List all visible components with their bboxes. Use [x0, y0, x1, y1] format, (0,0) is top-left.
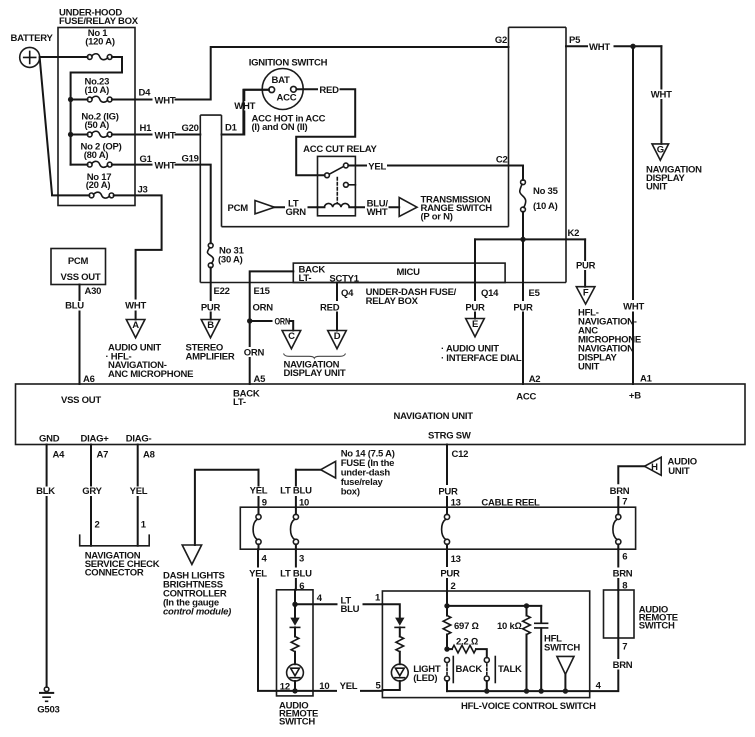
svg-text:G503: G503 [37, 705, 59, 716]
svg-text:RELAY BOX: RELAY BOX [366, 296, 419, 307]
node audio remote bottom [292, 688, 297, 693]
under-dash box right edge / P5 line [565, 27, 567, 282]
relay NO contact [344, 163, 356, 168]
battery [11, 33, 54, 67]
pin DIAG- [126, 434, 152, 445]
svg-text:LT BLU: LT BLU [280, 569, 312, 580]
svg-text:B: B [207, 320, 214, 331]
svg-text:H1: H1 [140, 123, 153, 134]
svg-text:WHT: WHT [651, 90, 672, 101]
svg-text:YEL: YEL [250, 486, 268, 497]
cable reel box [240, 498, 635, 550]
label audio unit / interface dial [441, 344, 522, 365]
under-dash box left edge (G20 line) [199, 115, 201, 282]
PCM connector [228, 201, 275, 215]
svg-text:(10 A): (10 A) [533, 201, 558, 212]
relay actuator dashed link [336, 178, 338, 204]
svg-text:3: 3 [299, 554, 304, 565]
relay common contact [325, 173, 330, 178]
wire Q14 PUR to connector E [465, 239, 499, 318]
svg-text:BRN: BRN [610, 486, 630, 497]
svg-text:UNIT: UNIT [646, 182, 668, 193]
wire H1 WHT G20 D1 [112, 90, 269, 142]
wire pin 12 / pin 10 YEL to hfl pin 5 [277, 681, 383, 693]
svg-text:GRY: GRY [82, 486, 102, 497]
svg-text:E: E [472, 319, 478, 330]
fuse No.23 (10 A) [71, 77, 113, 103]
svg-text:RED: RED [319, 85, 339, 96]
label audio unit / hfl-navigation-anc microphone [106, 343, 194, 380]
node rail talk [484, 688, 489, 693]
svg-text:UNIT: UNIT [578, 362, 600, 373]
wire BLU/WHT relay to transmission range switch [355, 199, 399, 219]
pin STRG SW [428, 431, 471, 442]
audio unit connector H [645, 457, 697, 477]
audio remote switch box [277, 590, 319, 728]
svg-text:WHT: WHT [234, 101, 255, 112]
node WHT split [630, 44, 635, 49]
svg-text:MICU: MICU [397, 267, 421, 278]
svg-text:7: 7 [622, 642, 627, 653]
svg-text:DIAG+: DIAG+ [81, 434, 110, 445]
svg-text:ORN: ORN [253, 303, 274, 314]
svg-text:No 35: No 35 [533, 186, 559, 197]
svg-text:2: 2 [95, 520, 100, 531]
svg-text:ACC: ACC [516, 392, 536, 403]
svg-text:YEL: YEL [249, 569, 267, 580]
svg-text:VSS OUT: VSS OUT [61, 272, 101, 283]
connector D [328, 331, 347, 349]
svg-text:Q14: Q14 [481, 288, 499, 299]
svg-text:SWITCH: SWITCH [544, 643, 580, 654]
svg-text:box): box) [341, 487, 360, 498]
svg-text:BRN: BRN [613, 569, 633, 580]
cable reel coupler BRN [613, 507, 621, 549]
cable reel coupler YEL [253, 507, 261, 549]
pin VSS OUT [61, 395, 101, 406]
navigation unit box [16, 384, 746, 445]
wire A8 YEL [130, 445, 155, 546]
svg-text:PCM: PCM [68, 256, 89, 267]
wire YEL to dash lights controller [195, 470, 259, 545]
relay coil [318, 203, 356, 207]
svg-text:LT-: LT- [299, 273, 312, 284]
svg-text:12: 12 [280, 682, 290, 693]
svg-text:ACC: ACC [276, 93, 296, 104]
wire hfl top rail [447, 605, 541, 607]
svg-text:CONNECTOR: CONNECTOR [85, 568, 144, 579]
PCM VSS OUT box [51, 249, 106, 285]
wire A4 BLK to ground [36, 445, 65, 688]
svg-text:YEL: YEL [368, 161, 386, 172]
wire LT BLU pin 4 to hfl pin 1 [295, 592, 382, 615]
svg-text:ORN: ORN [275, 316, 291, 327]
svg-text:AMPLIFIER: AMPLIFIER [186, 351, 235, 362]
wire BRN through to hfl pin 4 [590, 590, 633, 692]
svg-text:SCTY1: SCTY1 [329, 274, 359, 285]
wire pin 6 into switch [294, 590, 296, 605]
svg-text:DIAG-: DIAG- [126, 434, 152, 445]
wire J3 to WHT audio unit branch [114, 185, 162, 320]
svg-text:A4: A4 [53, 450, 66, 461]
under-hood fuse/relay box [58, 8, 139, 206]
fuse No 1 (120 A) [85, 28, 115, 60]
svg-text:C: C [288, 331, 295, 342]
fuse No 31 (30 A) [207, 243, 244, 268]
svg-text:P5: P5 [569, 35, 581, 46]
svg-text:697 Ω: 697 Ω [454, 621, 479, 632]
svg-text:(50 A): (50 A) [85, 120, 110, 131]
capacitor C [535, 606, 548, 691]
label under-dash fuse/relay box [366, 287, 457, 307]
fuse No 2 (OP) (80 A) [71, 142, 122, 168]
node No35/E5/K2 [520, 237, 525, 242]
svg-text:PCM: PCM [228, 203, 249, 214]
transmission range switch connector [399, 195, 492, 223]
svg-text:WHT: WHT [155, 95, 176, 106]
svg-text:2.2 Ω: 2.2 Ω [456, 636, 478, 647]
svg-text:C2: C2 [496, 155, 508, 166]
svg-text:(P or N): (P or N) [421, 212, 453, 223]
wire LT GRN PCM to relay coil [275, 198, 318, 218]
svg-text:D: D [334, 331, 341, 342]
wire ORN to A5 [244, 348, 266, 386]
pin +B [629, 391, 641, 402]
ground G503 [37, 687, 59, 716]
svg-text:WHT: WHT [589, 42, 610, 53]
switch BACK [445, 657, 483, 692]
svg-text:D1: D1 [225, 123, 238, 134]
svg-text:BRN: BRN [613, 660, 633, 671]
wire battery to fuse No 1 [40, 56, 88, 58]
wire BRN cable reel 6 to audio remote 8 [613, 549, 633, 591]
wire BRN audio unit to cable reel 7 [610, 466, 645, 507]
svg-text:FUSE/RELAY BOX: FUSE/RELAY BOX [59, 16, 139, 27]
node ORN split [247, 318, 252, 323]
switch TALK [484, 657, 522, 692]
pin DIAG+ [81, 434, 110, 445]
label G2 [495, 35, 507, 46]
label acc hot [252, 114, 326, 134]
svg-text:WHT: WHT [125, 301, 146, 312]
connector E [466, 319, 485, 337]
node 10k tap [524, 603, 529, 608]
resistor hfl LED [396, 637, 404, 665]
ignition box left edge (D1 line) [221, 115, 223, 227]
wire E15 ORN back lt- [250, 271, 294, 346]
svg-text:CABLE REEL: CABLE REEL [481, 498, 540, 509]
svg-text:J3: J3 [138, 185, 148, 196]
svg-text:PUR: PUR [438, 487, 458, 498]
svg-text:LT BLU: LT BLU [280, 486, 312, 497]
svg-text:A1: A1 [640, 374, 653, 385]
wire E22 PUR to stereo amplifier [201, 268, 230, 320]
bracket navigation display unit [284, 354, 346, 359]
wire LT BLU cable reel 3 to audio remote 6 [280, 549, 312, 592]
wire G1 WHT G19 down to No 31 [112, 154, 211, 244]
svg-text:UNIT: UNIT [668, 466, 690, 477]
svg-text:HFL-VOICE CONTROL SWITCH: HFL-VOICE CONTROL SWITCH [461, 701, 596, 712]
relay switch arm [329, 166, 343, 174]
svg-text:BLU: BLU [65, 301, 84, 312]
ignition switch [249, 58, 328, 110]
svg-text:BLU: BLU [341, 604, 360, 615]
wire YEL relay to C2 and No 35 [355, 155, 523, 181]
resistor 2.2 ohm [447, 636, 487, 657]
svg-text:(30 A): (30 A) [218, 255, 243, 266]
svg-text:WHT: WHT [623, 302, 644, 313]
svg-text:G2: G2 [495, 35, 507, 46]
svg-text:F: F [583, 287, 589, 298]
connector F [576, 287, 595, 304]
svg-text:control module): control module) [163, 607, 231, 618]
navigation service check connector [80, 534, 160, 578]
ACC cut relay [303, 144, 377, 216]
node rail hfl switch [563, 688, 568, 693]
LED audio remote [287, 664, 304, 691]
wire hfl pin 1 to LED branch [382, 604, 399, 617]
svg-text:D4: D4 [139, 88, 152, 99]
svg-text:WHT: WHT [367, 207, 388, 218]
svg-text:STRG SW: STRG SW [428, 431, 471, 442]
svg-text:BACK: BACK [456, 664, 483, 675]
svg-text:WHT: WHT [155, 160, 176, 171]
svg-text:E15: E15 [254, 286, 271, 297]
audio remote switch pass-through box [604, 590, 678, 638]
node hfl top [444, 603, 449, 608]
connector A [126, 320, 145, 338]
svg-text:Q4: Q4 [341, 288, 354, 299]
cable reel coupler PUR [442, 507, 450, 549]
resistor 10 kohm [497, 606, 530, 691]
svg-text:SWITCH: SWITCH [639, 621, 675, 632]
wire D4 WHT to top run [112, 47, 509, 106]
pin ACC [516, 392, 536, 403]
node 697/2.2 [444, 646, 449, 651]
connector B [201, 320, 220, 338]
svg-text:BATTERY: BATTERY [11, 33, 54, 44]
svg-text:PUR: PUR [465, 303, 485, 314]
svg-text:H: H [651, 462, 658, 473]
wire WHT to navigation display unit G [651, 46, 672, 144]
relay NC contact [344, 182, 356, 187]
svg-text:ANC MICROPHONE: ANC MICROPHONE [108, 369, 193, 380]
svg-text:G20: G20 [182, 123, 199, 134]
svg-text:BLK: BLK [36, 486, 55, 497]
wire K2 line [475, 212, 585, 240]
svg-text:G: G [657, 145, 664, 156]
svg-text:E5: E5 [529, 288, 541, 299]
svg-text:G1: G1 [140, 154, 153, 165]
wire LT BLU cable reel pin 10 [280, 470, 312, 509]
node bus-No2IG [68, 132, 73, 137]
svg-text:(I) and ON (II): (I) and ON (II) [252, 122, 308, 133]
node audio remote split [292, 602, 297, 607]
svg-text:C12: C12 [452, 449, 469, 460]
LED light hfl [382, 664, 440, 690]
hfl switch symbol [544, 634, 580, 692]
svg-text:NAVIGATION UNIT: NAVIGATION UNIT [394, 411, 474, 422]
MICU box [293, 263, 505, 284]
wire K2 PUR to connector F [576, 239, 596, 286]
wire hfl bottom rail [447, 690, 590, 692]
svg-text:· INTERFACE DIAL: · INTERFACE DIAL [441, 353, 522, 364]
label hfl-navigation-anc microphone navigation display unit [578, 308, 641, 373]
cable reel bottom pins [262, 552, 628, 566]
resistor 697 ohm [443, 606, 478, 649]
svg-text:+B: +B [629, 391, 641, 402]
wire Q4 RED to connector D [320, 283, 354, 331]
svg-text:IGNITION SWITCH: IGNITION SWITCH [249, 58, 328, 69]
diode hfl [395, 618, 404, 637]
svg-text:PUR: PUR [513, 303, 533, 314]
wire fuse No 1 output to fuse bus [71, 57, 122, 165]
under-dash box bottom edge [200, 282, 566, 284]
diode audio remote [290, 604, 299, 636]
label P5 [569, 35, 581, 46]
wire RED from ignition ACC to relay [296, 85, 355, 175]
svg-text:A30: A30 [85, 286, 102, 297]
wire E5 PUR to A2 [513, 239, 540, 385]
wire YEL cable reel 4 down to audio remote 12 [249, 549, 276, 691]
wire PUR cable reel 13 to hfl switch 2 [440, 549, 460, 606]
svg-text:10: 10 [319, 681, 329, 692]
svg-text:PUR: PUR [440, 569, 460, 580]
label navigation display unit (right) [646, 165, 702, 193]
svg-text:10 kΩ: 10 kΩ [497, 621, 522, 632]
dash lights brightness controller connector [163, 545, 231, 618]
cable reel coupler LT BLU [291, 507, 299, 549]
svg-text:BAT: BAT [271, 75, 290, 86]
svg-text:PUR: PUR [576, 261, 596, 272]
hfl-voice control switch box [382, 591, 596, 712]
label navigation display unit (middle) [284, 360, 346, 379]
svg-text:DISPLAY UNIT: DISPLAY UNIT [284, 368, 346, 379]
svg-text:YEL: YEL [130, 486, 148, 497]
svg-text:(20 A): (20 A) [86, 180, 111, 191]
svg-text:6: 6 [622, 552, 627, 563]
svg-text:YEL: YEL [340, 681, 358, 692]
svg-text:7: 7 [622, 497, 627, 508]
wire WHT to ignition BAT [234, 90, 269, 135]
fuse No 17 (20 A) [86, 172, 114, 198]
ignition box right edge / G2 line [508, 27, 510, 226]
svg-text:GRN: GRN [286, 207, 307, 218]
svg-text:A: A [132, 320, 139, 331]
svg-text:PUR: PUR [201, 303, 221, 314]
node rail cap [539, 688, 544, 693]
wire A7 GRY [82, 445, 108, 546]
fuse No.2 (IG) (50 A) [71, 111, 119, 137]
svg-text:A7: A7 [97, 450, 109, 461]
node rail 10k [524, 688, 529, 693]
wire hfl pin 2 [446, 591, 448, 606]
svg-text:SWITCH: SWITCH [279, 717, 315, 728]
connector bridge G20/D1 [200, 114, 221, 116]
svg-text:GND: GND [39, 434, 60, 445]
svg-text:TALK: TALK [498, 664, 522, 675]
svg-text:G19: G19 [182, 154, 199, 165]
wire A30 BLU to A6 [65, 285, 101, 386]
wire WHT top right [566, 42, 661, 53]
svg-text:(80 A): (80 A) [84, 150, 109, 161]
svg-text:E22: E22 [214, 286, 230, 297]
connector C [282, 331, 301, 349]
svg-text:K2: K2 [568, 228, 580, 239]
svg-text:LT-: LT- [233, 397, 246, 408]
ignition box bottom edge [222, 226, 509, 228]
wire PUR C12 to cable reel 13 [438, 445, 468, 509]
svg-text:ACC CUT RELAY: ACC CUT RELAY [303, 144, 377, 155]
svg-text:(LED): (LED) [413, 673, 437, 684]
svg-text:VSS OUT: VSS OUT [61, 395, 101, 406]
resistor audio remote [291, 637, 299, 665]
svg-text:(10 A): (10 A) [85, 85, 110, 96]
svg-text:13: 13 [451, 554, 461, 565]
connector G [652, 144, 669, 160]
svg-text:(120 A): (120 A) [85, 37, 115, 48]
wire YEL cable reel pin 9 [250, 470, 268, 509]
svg-text:WHT: WHT [155, 130, 176, 141]
pin BACK LT- [233, 389, 260, 408]
svg-text:RED: RED [320, 303, 340, 314]
pin GND [39, 434, 60, 445]
label stereo amplifier [186, 343, 235, 363]
wire battery diagonal to fuse No 17 [40, 58, 90, 195]
wire ORN branch to connector C [250, 316, 294, 330]
svg-text:A8: A8 [143, 450, 155, 461]
fuse No 35 (10 A) [520, 180, 559, 212]
node bus-No23 [68, 97, 73, 102]
wire WHT to A1 [623, 46, 652, 384]
No 14 fuse callout [296, 449, 395, 498]
svg-text:ORN: ORN [244, 348, 265, 359]
bridge G2 to P5 [509, 26, 567, 28]
